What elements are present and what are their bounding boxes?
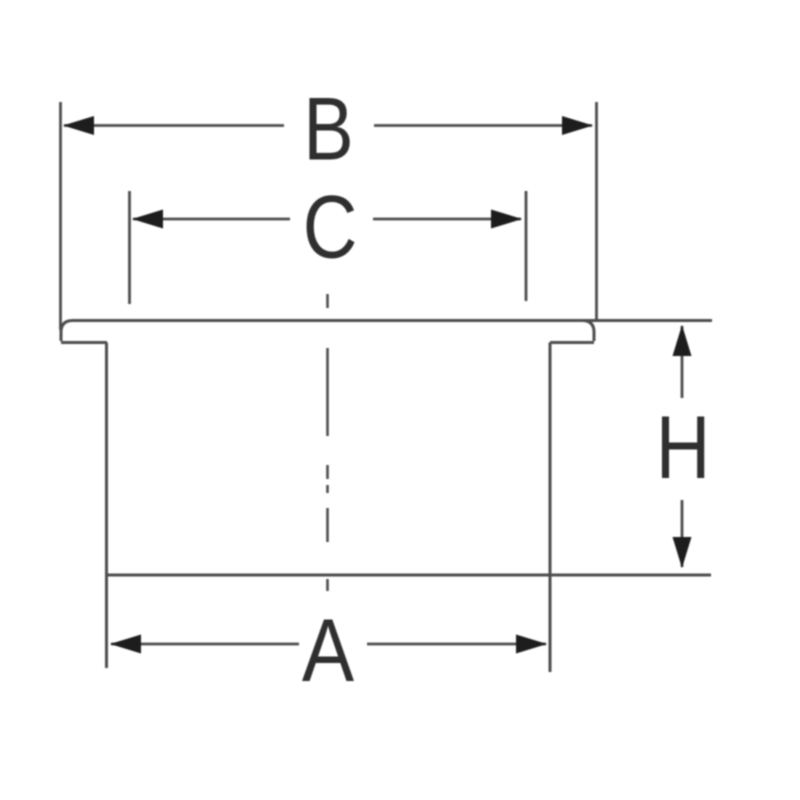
- dimension A line left segment: [111, 643, 299, 646]
- arrowhead H down: [673, 537, 692, 568]
- dimension C extension line right: [525, 191, 528, 301]
- body bottom line with H extension: [106, 574, 711, 577]
- arrowhead A right: [516, 635, 547, 654]
- arrowhead A left: [110, 635, 141, 654]
- dimension C line right segment: [373, 218, 521, 221]
- dimension B line left segment: [64, 124, 284, 127]
- flange underside left: [61, 341, 107, 344]
- body right edge with A extension: [549, 343, 552, 673]
- svg-text:H: H: [656, 397, 711, 497]
- centerline dash-dot: [326, 294, 329, 591]
- dimension B extension line right: [595, 102, 598, 321]
- arrowhead C left: [132, 210, 163, 229]
- flange underside right: [550, 341, 594, 344]
- dimension B line right segment: [374, 124, 592, 127]
- arrowhead H up: [673, 325, 692, 356]
- svg-text:C: C: [303, 177, 358, 277]
- dimension H line upper segment: [681, 326, 684, 398]
- arrowhead B left: [63, 116, 94, 135]
- flange top line with H extension: [72, 319, 712, 322]
- dimension A line right segment: [367, 643, 546, 646]
- arrowhead C right: [491, 210, 522, 229]
- svg-text:A: A: [302, 600, 354, 700]
- dimension C extension line left: [128, 191, 131, 304]
- body left edge with A extension: [105, 343, 108, 669]
- flange right corner and edge: [583, 321, 594, 342]
- dimension B extension line left: [59, 102, 62, 330]
- dimension H line lower segment: [681, 500, 684, 567]
- flange left corner and edge: [61, 321, 72, 342]
- dimension C line left segment: [133, 218, 290, 221]
- arrowhead B right: [562, 116, 593, 135]
- svg-text:B: B: [303, 79, 353, 179]
